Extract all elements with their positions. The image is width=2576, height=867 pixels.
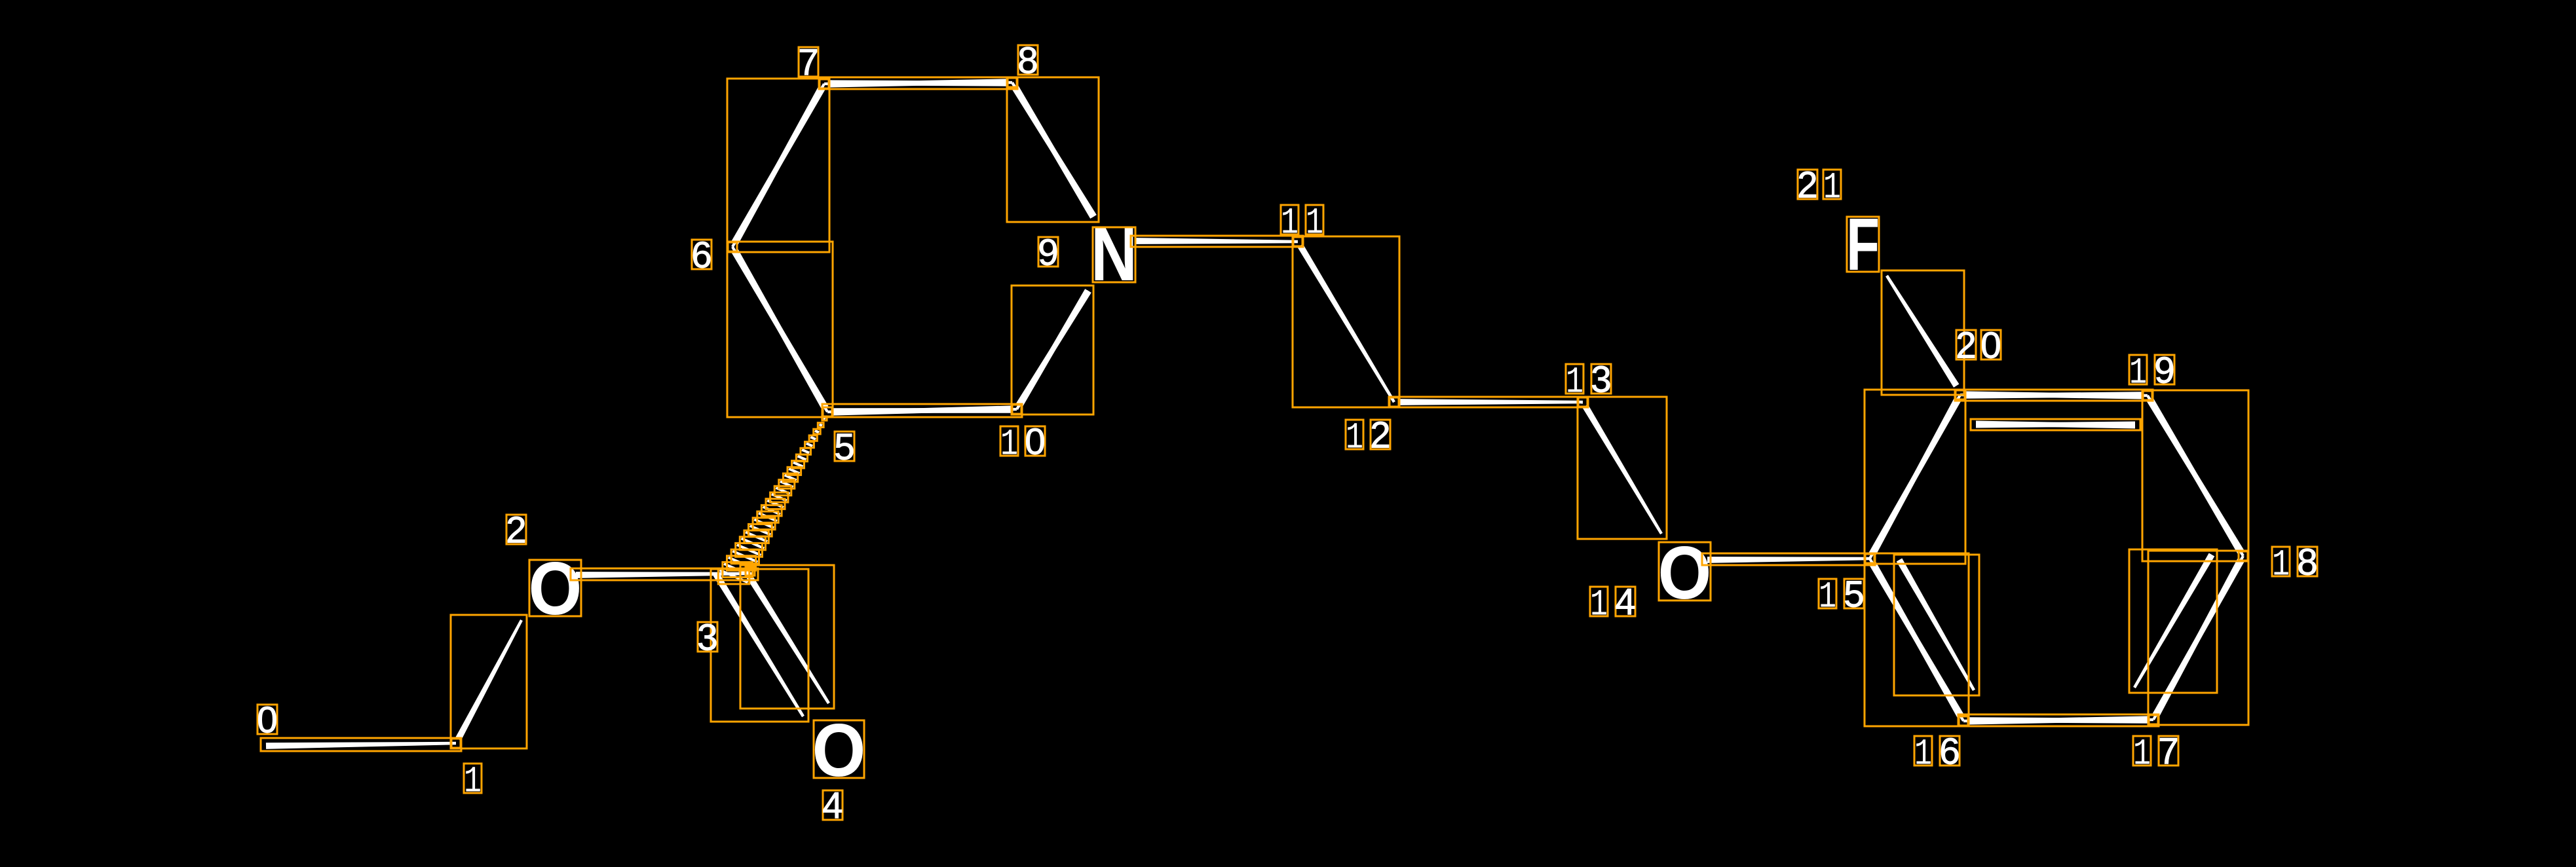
svg-text:1: 1 — [1000, 424, 1018, 466]
atom 1 box — [451, 739, 461, 748]
svg-text:5: 5 — [1844, 574, 1864, 615]
atom 3 box — [746, 566, 755, 576]
atom 16 box — [1959, 716, 1968, 726]
bond 9-11 bbox — [1131, 236, 1303, 247]
svg-text:2: 2 — [1956, 325, 1976, 366]
label 7 — [799, 47, 818, 77]
svg-text:1: 1 — [1566, 361, 1583, 403]
atom 10 box — [1012, 405, 1021, 414]
label 0 — [257, 705, 277, 734]
label 12 — [1346, 420, 1363, 449]
svg-text:2: 2 — [506, 509, 526, 551]
svg-text:O: O — [1658, 532, 1712, 615]
bond 20-21 bbox — [1882, 270, 1964, 395]
bond 5-6 line — [731, 246, 828, 410]
bond 13-14 bbox — [1578, 397, 1667, 539]
bond 19-20 inner line bbox — [1971, 419, 2140, 430]
svg-text:6: 6 — [1939, 731, 1960, 772]
atom 18 box — [2239, 551, 2248, 561]
svg-text:8: 8 — [2297, 542, 2317, 583]
bond 14-15 line — [1707, 557, 1870, 563]
label 15 — [1819, 579, 1836, 608]
svg-text:6: 6 — [691, 234, 711, 276]
label 13 — [1566, 364, 1583, 394]
label 21 — [1798, 170, 1817, 199]
svg-text:1: 1 — [2272, 544, 2290, 586]
bond 5-10 bbox — [822, 404, 1022, 417]
svg-text:1: 1 — [1819, 576, 1836, 618]
label 19 — [2129, 355, 2147, 384]
bond 17-18 inner line — [2133, 553, 2214, 689]
label 14 — [1590, 587, 1608, 616]
label 3 — [698, 622, 717, 652]
svg-text:1: 1 — [1346, 417, 1363, 459]
bond 0-1 bbox — [261, 738, 461, 751]
label 4 — [823, 790, 843, 820]
svg-text:0: 0 — [257, 699, 277, 741]
svg-text:7: 7 — [798, 42, 818, 83]
svg-text:3: 3 — [697, 617, 717, 658]
bond 15-16 line — [1869, 561, 1965, 722]
svg-text:4: 4 — [1615, 581, 1635, 623]
bond 13-14 line — [1582, 405, 1663, 535]
bond 6-7 bbox — [727, 79, 829, 252]
bond 12-13 bbox — [1389, 397, 1588, 407]
atom 12 box — [1390, 397, 1399, 407]
svg-text:1: 1 — [1823, 167, 1841, 209]
bond 8-9 bbox — [1007, 77, 1099, 222]
svg-text:1: 1 — [1914, 733, 1932, 775]
svg-text:5: 5 — [834, 426, 854, 468]
bond 7-8 bbox — [819, 77, 1017, 89]
svg-text:9: 9 — [2154, 350, 2174, 391]
bond 12-13 line — [1399, 399, 1583, 405]
svg-text:1: 1 — [1306, 202, 1323, 244]
bond 16-17 line — [1968, 717, 2153, 724]
atom 20 box — [1956, 390, 1965, 399]
svg-text:0: 0 — [1025, 421, 1045, 462]
bond 14-15 bbox — [1702, 553, 1875, 565]
bond 15-16 bbox — [1865, 553, 1969, 726]
bond 3-4 (C=O line b) — [743, 568, 830, 704]
svg-text:1: 1 — [464, 761, 482, 803]
atom 13 box — [1578, 397, 1587, 407]
bond 11-12 line — [1297, 244, 1395, 403]
bond 19-20 bbox — [1955, 390, 2153, 401]
atom O2 box — [529, 560, 581, 616]
svg-text:O: O — [812, 709, 866, 792]
bond 17-18 line — [2152, 555, 2244, 718]
label 18 — [2272, 547, 2290, 576]
bond 8-9 line — [1012, 84, 1095, 217]
bond 6-7 line — [732, 83, 825, 245]
label 2 — [506, 515, 526, 544]
bond 1-2 line — [455, 619, 523, 741]
bond 3-4 (C=O line a) bbox — [711, 569, 808, 722]
bond 16-17 bbox — [1958, 714, 2159, 726]
svg-text:N: N — [1091, 212, 1137, 297]
bond 5-10 line — [832, 408, 1017, 416]
label 20 — [1956, 330, 1976, 360]
svg-text:0: 0 — [1980, 325, 2001, 366]
bond 5-6 bbox — [727, 242, 833, 417]
bond 3-4 (C=O line a) — [713, 572, 805, 717]
label 10 — [1000, 426, 1018, 456]
svg-text:1: 1 — [1590, 584, 1608, 626]
atom F21 box — [1847, 217, 1879, 272]
bond 0-1 line — [266, 742, 456, 749]
label 9 — [1038, 237, 1058, 267]
bond 15-16 inner line bbox — [1894, 555, 1979, 695]
label 8 — [1018, 45, 1038, 75]
bond 19-20 inner line — [1976, 421, 2135, 428]
bond 19-20 line — [1960, 392, 2143, 399]
bond 11-12 bbox — [1293, 236, 1399, 407]
bond 3-4 (C=O line b) bbox — [740, 565, 834, 709]
atom 6 box — [728, 242, 737, 251]
bond 2-3 bbox — [571, 568, 758, 580]
atom O14 box — [1659, 542, 1711, 600]
svg-text:4: 4 — [822, 785, 843, 826]
svg-text:9: 9 — [1038, 232, 1058, 273]
hashed wedge bond 3-5 hash bboxes — [822, 416, 827, 420]
svg-text:2: 2 — [1797, 164, 1817, 206]
atom 8 box — [1008, 78, 1017, 87]
atom 15 box — [1865, 554, 1874, 563]
bond 18-19 bbox — [2142, 390, 2248, 561]
bond 18-19 line — [2146, 395, 2244, 554]
label 6 — [692, 240, 711, 269]
bond 1-2 bbox — [451, 615, 527, 748]
atom 5 box — [823, 407, 832, 416]
svg-text:2: 2 — [1370, 415, 1390, 456]
atom O4 box — [814, 720, 864, 778]
atom N9 box — [1093, 227, 1135, 282]
bond 2-3 line — [576, 572, 753, 578]
label 1 — [464, 764, 482, 793]
svg-text:1: 1 — [1281, 202, 1298, 244]
svg-text:7: 7 — [2158, 731, 2178, 772]
bond 9-11 line — [1136, 238, 1298, 244]
label 17 — [2133, 736, 2151, 766]
bond 20-21 line — [1885, 275, 1959, 388]
hashed wedge bond 3-5 (hash strokes) — [824, 418, 825, 418]
bond 9-10 bbox — [1012, 286, 1093, 415]
bond 15-16 inner line — [1897, 559, 1975, 692]
atom 11 box — [1293, 237, 1302, 246]
svg-text:8: 8 — [1017, 40, 1038, 81]
svg-text:1: 1 — [2129, 352, 2147, 394]
bond 7-8 line — [829, 80, 1012, 87]
label 11 — [1281, 205, 1298, 234]
label 16 — [1914, 736, 1932, 766]
svg-text:1: 1 — [2133, 733, 2151, 775]
svg-text:F: F — [1846, 203, 1880, 286]
bond 17-18 inner line bbox — [2129, 549, 2217, 693]
bond 20-15 bbox — [1865, 390, 1965, 564]
atom 7 box — [820, 79, 829, 88]
svg-text:3: 3 — [1591, 359, 1611, 400]
atom 17 box — [2149, 715, 2158, 724]
label 5 — [835, 432, 854, 461]
atom 19 box — [2143, 391, 2152, 400]
bond 17-18 bbox — [2148, 551, 2248, 725]
bond 9-10 line — [1015, 289, 1091, 410]
bond 20-15 line — [1868, 397, 1961, 559]
